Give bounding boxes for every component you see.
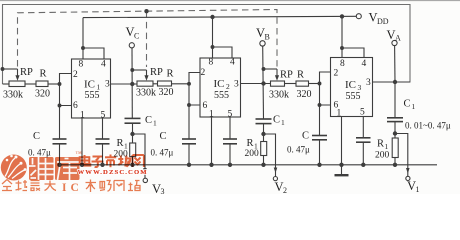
svg-text:320: 320	[159, 87, 174, 98]
potentiometer RP1 body	[9, 81, 25, 87]
pin numbers IC1	[73, 60, 110, 121]
capacitor C5 (IC3 pin5)	[362, 117, 364, 138]
svg-text:8: 8	[79, 60, 84, 70]
watermark char 子 (small)	[92, 157, 104, 168]
wire: IC1 pin1 drop	[81, 118, 83, 165]
wire: RP1 wiper tap from border	[3, 68, 18, 70]
label VC	[126, 25, 140, 41]
label IC1	[84, 79, 101, 92]
svg-text:0. 47μ: 0. 47μ	[287, 145, 310, 155]
watermark char 场 (small)	[118, 156, 130, 167]
svg-text:C: C	[134, 32, 139, 41]
wire: IC3 pin3 output to VA node and border	[373, 81, 411, 83]
watermark bottom row 全球最大IC采购网站	[2, 180, 140, 193]
scan top edge	[0, 0, 460, 2]
svg-text:3: 3	[161, 187, 165, 194]
svg-text:0. 47μ: 0. 47μ	[28, 148, 51, 158]
wire: V1 tap	[395, 134, 408, 177]
svg-text:IC: IC	[345, 79, 356, 91]
potentiometer RP3 body	[271, 81, 285, 86]
wire: IC3 input vertical pins 2,6	[320, 72, 331, 105]
label R1 stage3	[377, 139, 389, 152]
watermark logo circle	[1, 155, 27, 181]
pin numbers IC2	[201, 58, 240, 120]
wire: outer feedback loop border (top / left / right)	[3, 5, 411, 85]
resistor R1 (stage1) body	[130, 143, 136, 157]
svg-text:555: 555	[214, 90, 229, 101]
svg-text:RP: RP	[150, 67, 163, 78]
svg-text:8: 8	[340, 59, 345, 69]
svg-text:555: 555	[85, 90, 100, 101]
watermark char 库	[55, 157, 80, 180]
wire: VB node column	[262, 46, 265, 119]
wire: VA node column	[394, 46, 396, 82]
label IC3	[345, 79, 362, 92]
capacitor C (stage1 timing)	[59, 106, 61, 140]
label C1 stage2	[273, 115, 285, 128]
terminal V3	[143, 178, 147, 182]
svg-text:C: C	[273, 115, 280, 126]
wire: IC2 pin8/4 supply tee	[212, 17, 214, 58]
svg-text:200: 200	[375, 151, 390, 161]
terminal V1	[406, 176, 410, 180]
svg-text:555: 555	[346, 91, 361, 102]
svg-text:R: R	[117, 138, 124, 149]
resistor R1 (stage2) body	[261, 142, 267, 156]
terminal VB	[260, 41, 265, 46]
svg-text:A: A	[395, 34, 401, 43]
watermark char 电 (small)	[80, 155, 91, 166]
svg-text:R: R	[167, 69, 174, 80]
resistor R (stage3) body	[296, 81, 309, 86]
svg-text:4: 4	[101, 60, 106, 70]
svg-text:WWW.DZSC.COM: WWW.DZSC.COM	[78, 169, 148, 176]
label VB	[256, 26, 270, 42]
svg-text:320: 320	[35, 89, 50, 100]
label V2	[275, 180, 288, 195]
watermark char 网 (small)	[133, 155, 144, 167]
terminal VA	[392, 40, 397, 45]
terminal VDD	[356, 14, 361, 19]
svg-text:2: 2	[334, 69, 339, 79]
svg-text:C: C	[145, 115, 152, 126]
wire: IC2 pin3 output	[241, 83, 271, 85]
wire: ground rail	[60, 164, 438, 166]
wiper arrow RP1	[17, 69, 19, 76]
ground	[341, 165, 343, 175]
svg-text:1: 1	[281, 118, 285, 127]
op IC2 555 box	[200, 58, 241, 117]
svg-text:5: 5	[101, 111, 106, 121]
terminal VC	[129, 43, 134, 48]
label R1 stage2	[247, 138, 259, 151]
svg-text:1: 1	[209, 110, 214, 120]
wire: VC node column	[131, 48, 133, 118]
svg-text:R: R	[297, 70, 304, 81]
op IC3 555 box	[331, 58, 373, 117]
svg-text:6: 6	[73, 101, 78, 111]
capacitor C1 (stage2 coupling)	[256, 118, 272, 120]
capacitor C (stage3 timing)	[319, 105, 321, 136]
svg-text:320: 320	[297, 89, 312, 100]
svg-text:1: 1	[80, 111, 85, 121]
WATERMARK-LAYER	[1, 151, 148, 194]
svg-text:C: C	[160, 131, 167, 142]
capacitor C5 (IC1 pin5)	[102, 118, 104, 139]
node: rail junctions	[57, 163, 397, 167]
wire: ganged-pot dashed rail	[18, 10, 278, 67]
svg-text:2: 2	[283, 186, 287, 194]
watermark char 维	[29, 157, 54, 180]
wire: IC3 pin8/4 supply tee	[341, 16, 343, 57]
svg-text:RP: RP	[20, 67, 33, 78]
svg-text:C: C	[404, 99, 411, 110]
svg-text:RP: RP	[280, 70, 293, 81]
node: dashed rail junction	[144, 9, 148, 13]
svg-text:R: R	[40, 69, 47, 80]
svg-text:1: 1	[337, 109, 342, 119]
resistor R (stage1) body	[36, 81, 48, 87]
label VA	[387, 28, 402, 43]
wire: dashed drop to RP2 wiper	[146, 11, 148, 67]
label C1 stage1	[145, 115, 157, 128]
svg-text:C: C	[71, 182, 79, 194]
label V1	[407, 179, 420, 194]
label C1 stage3	[404, 99, 416, 112]
svg-text:1: 1	[153, 119, 157, 128]
svg-text:I: I	[62, 182, 67, 194]
wire: IC2 input vertical pins 2,6	[189, 73, 200, 106]
svg-text:R: R	[247, 138, 254, 149]
svg-text:IC: IC	[84, 79, 95, 91]
svg-text:2: 2	[201, 68, 206, 78]
TEXT-LAYER	[3, 11, 451, 197]
wiper arrow RP3	[276, 69, 278, 76]
svg-text:1: 1	[412, 102, 416, 111]
label V3	[152, 182, 165, 196]
watermark char 市 (small)	[105, 155, 116, 168]
svg-text:C: C	[302, 131, 309, 142]
capacitor C1 (stage1 coupling)	[125, 117, 141, 119]
wire: IC1 pin8/4 supply tee	[82, 18, 84, 59]
label VDD	[369, 11, 389, 27]
svg-text:3: 3	[105, 80, 110, 90]
label IC2	[214, 78, 231, 91]
wiper arrow RP2	[146, 70, 148, 76]
label R1 stage1	[117, 138, 129, 151]
capacitor C (stage2 timing)	[188, 105, 190, 139]
wire: IC2 pin1 drop	[211, 117, 213, 165]
wire: V2 tap	[264, 134, 276, 177]
svg-text:4: 4	[230, 58, 235, 68]
svg-text:6: 6	[203, 101, 208, 111]
svg-text:B: B	[265, 33, 270, 42]
node: rail to IC2	[210, 15, 214, 19]
resistor R1 (stage3) body	[392, 138, 398, 158]
svg-text:IC: IC	[214, 78, 225, 90]
svg-text:5: 5	[228, 110, 233, 120]
wire: left border into RP1 chain	[3, 83, 10, 85]
svg-text:330k: 330k	[269, 90, 289, 101]
svg-text:0. 47μ: 0. 47μ	[151, 148, 174, 158]
svg-text:5: 5	[360, 108, 365, 118]
node: rail to IC3	[340, 14, 344, 18]
svg-text:200: 200	[245, 149, 260, 159]
wire: IC1 input vertical pins 2,6	[60, 74, 72, 106]
terminal V2	[273, 177, 277, 181]
svg-text:1: 1	[416, 185, 420, 194]
svg-text:8: 8	[209, 58, 214, 68]
svg-text:330k: 330k	[3, 90, 23, 101]
capacitor C5 (IC2 pin5)	[229, 117, 231, 139]
svg-text:2: 2	[73, 70, 78, 80]
wire: RP2 wiper tap from VC node	[132, 69, 146, 71]
capacitor C1 (stage3 coupling)	[387, 117, 403, 119]
wire: RP3 wiper tap from VB node	[264, 68, 278, 70]
svg-text:C: C	[33, 131, 40, 142]
svg-text:3: 3	[366, 78, 371, 88]
wire: IC3 pin1 drop	[341, 117, 343, 165]
svg-text:R: R	[377, 139, 384, 150]
wire: VDD supply rail	[83, 16, 356, 17]
wire: V3 tap	[133, 134, 146, 178]
svg-text:4: 4	[362, 59, 367, 69]
wire: IC1 pin3 output	[111, 83, 138, 85]
op IC1 555 box	[72, 59, 111, 118]
svg-text:DD: DD	[377, 17, 389, 26]
resistor R (stage2) body	[158, 81, 172, 86]
pin numbers IC3	[334, 59, 372, 119]
svg-text:330k: 330k	[136, 88, 156, 99]
potentiometer RP2 body	[137, 81, 153, 86]
svg-text:0. 01~0. 47μ: 0. 01~0. 47μ	[405, 121, 451, 131]
svg-text:3: 3	[234, 80, 239, 90]
